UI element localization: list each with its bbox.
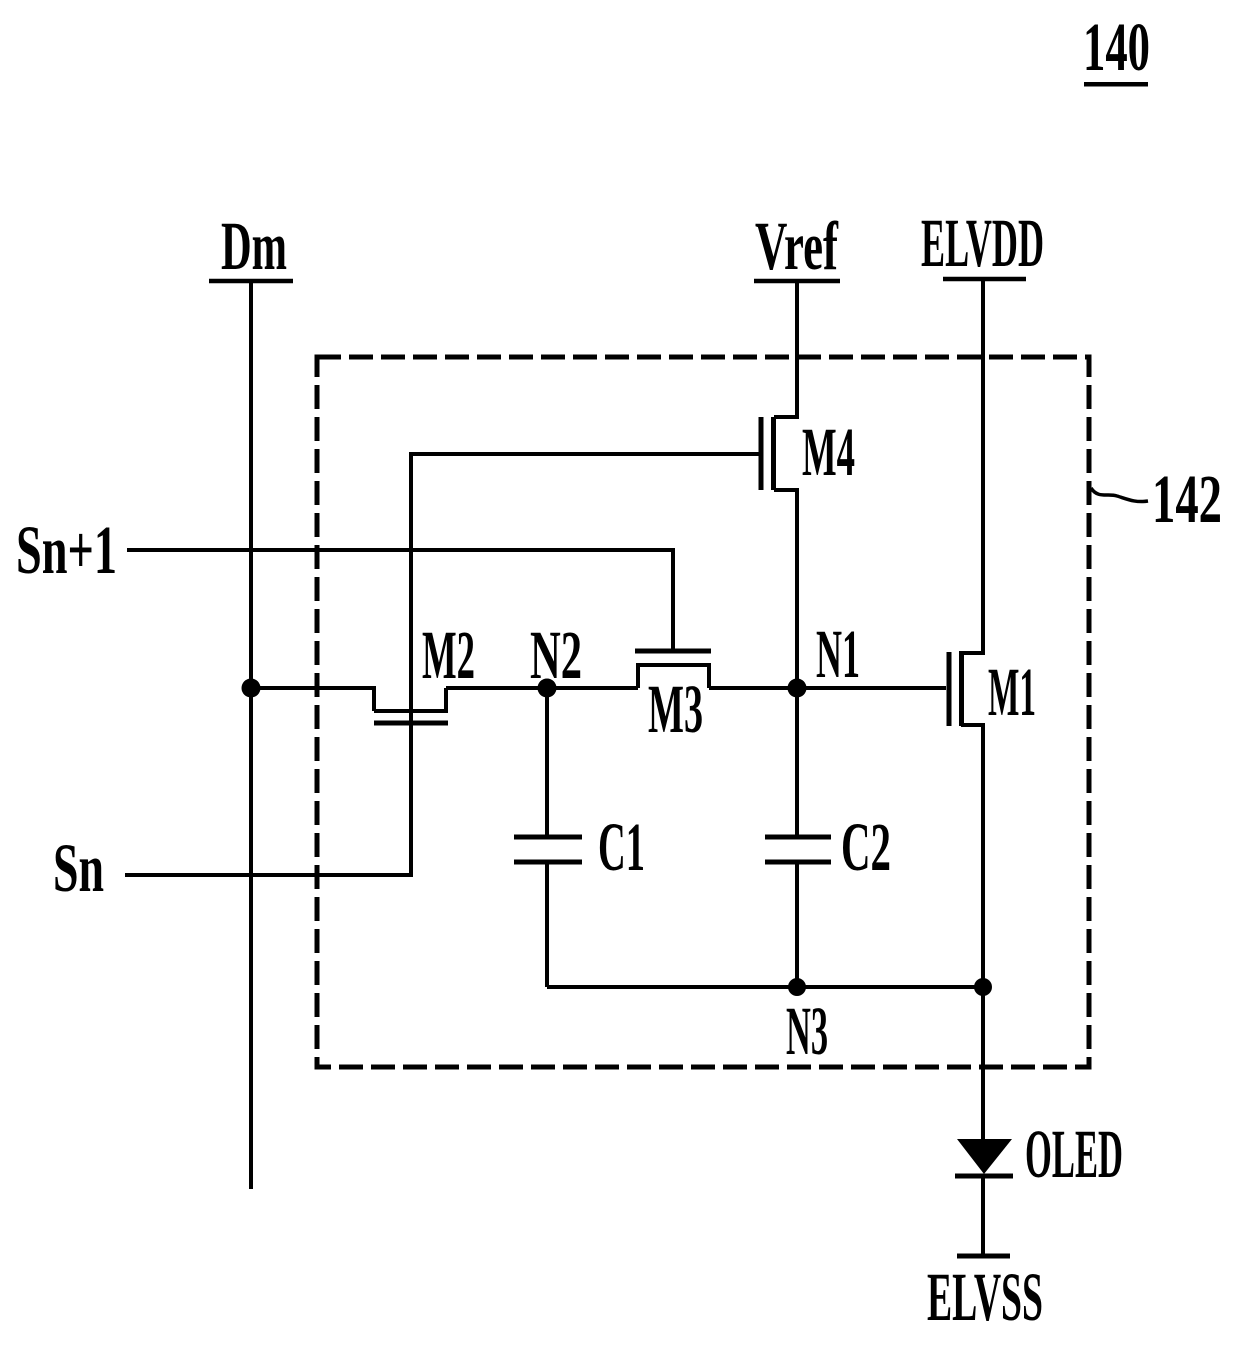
junction dot node N2 [538,679,557,698]
wire Vref to M4 drain [774,281,797,417]
wire M3 drain to node N1 to M1 gate [709,686,946,690]
wire M2 drain to node N2 to M3 source [446,686,638,690]
underline for 140 [1084,82,1148,87]
svg-text:OLED: OLED [1025,1116,1123,1192]
transistor M1 gate bar [947,652,952,726]
svg-text:M2: M2 [422,617,475,693]
svg-text:Sn: Sn [53,830,104,906]
svg-text:140: 140 [1083,9,1150,85]
node Vref terminal bar [754,279,840,284]
capacitor C2 bottom plate [765,860,831,865]
wire Dm data line vertical [249,281,253,1189]
junction dot Dm row [242,679,261,698]
diode OLED anode triangle [957,1139,1012,1174]
svg-text:142: 142 [1152,461,1222,537]
transistor M3 channel [638,665,709,688]
wire Dm to M2 source [251,688,374,711]
wire node N1 down to C2 top [795,688,799,838]
leader squiggle to 142 [1091,488,1148,502]
wire C2 bottom to node N3 [795,861,799,987]
transistor M2 channel [374,688,446,711]
capacitor C1 top plate [514,835,582,840]
wire M4 source down to node N1 [774,490,797,688]
transistor M4 gate bar [759,417,764,490]
transistor M2 gate bar [374,721,448,726]
wire ELVDD to M1 drain [961,279,983,653]
svg-text:C2: C2 [841,809,891,885]
wire Sn row line to gate riser to M4 gate [125,454,761,875]
capacitor C2 top plate [765,835,831,840]
junction dot node N1 [788,679,807,698]
svg-text:M1: M1 [988,654,1036,730]
svg-text:ELVDD: ELVDD [921,205,1044,281]
transistor M4 channel bar [771,417,776,490]
node ELVSS terminal bar [957,1254,1010,1259]
wire node N2 down to C1 top [545,688,549,838]
svg-text:N1: N1 [816,616,860,692]
node Dm terminal bar [209,279,293,284]
wire M1 source down to node N3 [961,725,983,1139]
junction dot N3 rail at OLED column [974,978,992,996]
svg-text:M4: M4 [802,414,855,490]
svg-text:N2: N2 [530,617,582,693]
svg-text:C1: C1 [598,809,645,885]
wire C1 bottom to N3 rail [545,861,549,987]
svg-text:Sn+1: Sn+1 [16,512,117,588]
wire Sn+1 row line to M3 gate [127,550,673,649]
svg-text:N3: N3 [786,993,828,1069]
transistor M1 channel bar [959,651,964,726]
transistor M3 gate bar [635,649,711,654]
junction dot node N3 [788,978,806,996]
boundary 142 dashed box [317,357,1089,1067]
node ELVDD terminal bar [943,277,1026,282]
svg-text:Dm: Dm [221,208,287,284]
wire OLED cathode to ELVSS [981,1176,985,1256]
diode OLED cathode bar [955,1174,1013,1179]
capacitor C1 bottom plate [514,860,582,865]
svg-text:M3: M3 [648,671,703,747]
svg-text:Vref: Vref [755,208,839,284]
wire N3 rail [547,985,983,989]
svg-text:ELVSS: ELVSS [927,1259,1043,1335]
